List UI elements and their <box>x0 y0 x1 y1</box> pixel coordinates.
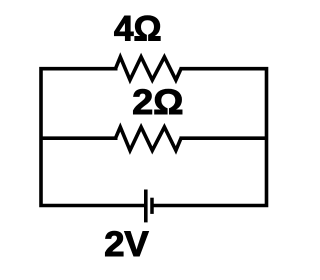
svg-text:2Ω: 2Ω <box>132 82 183 121</box>
svg-text:4Ω: 4Ω <box>114 9 162 48</box>
svg-text:2V: 2V <box>104 225 149 264</box>
